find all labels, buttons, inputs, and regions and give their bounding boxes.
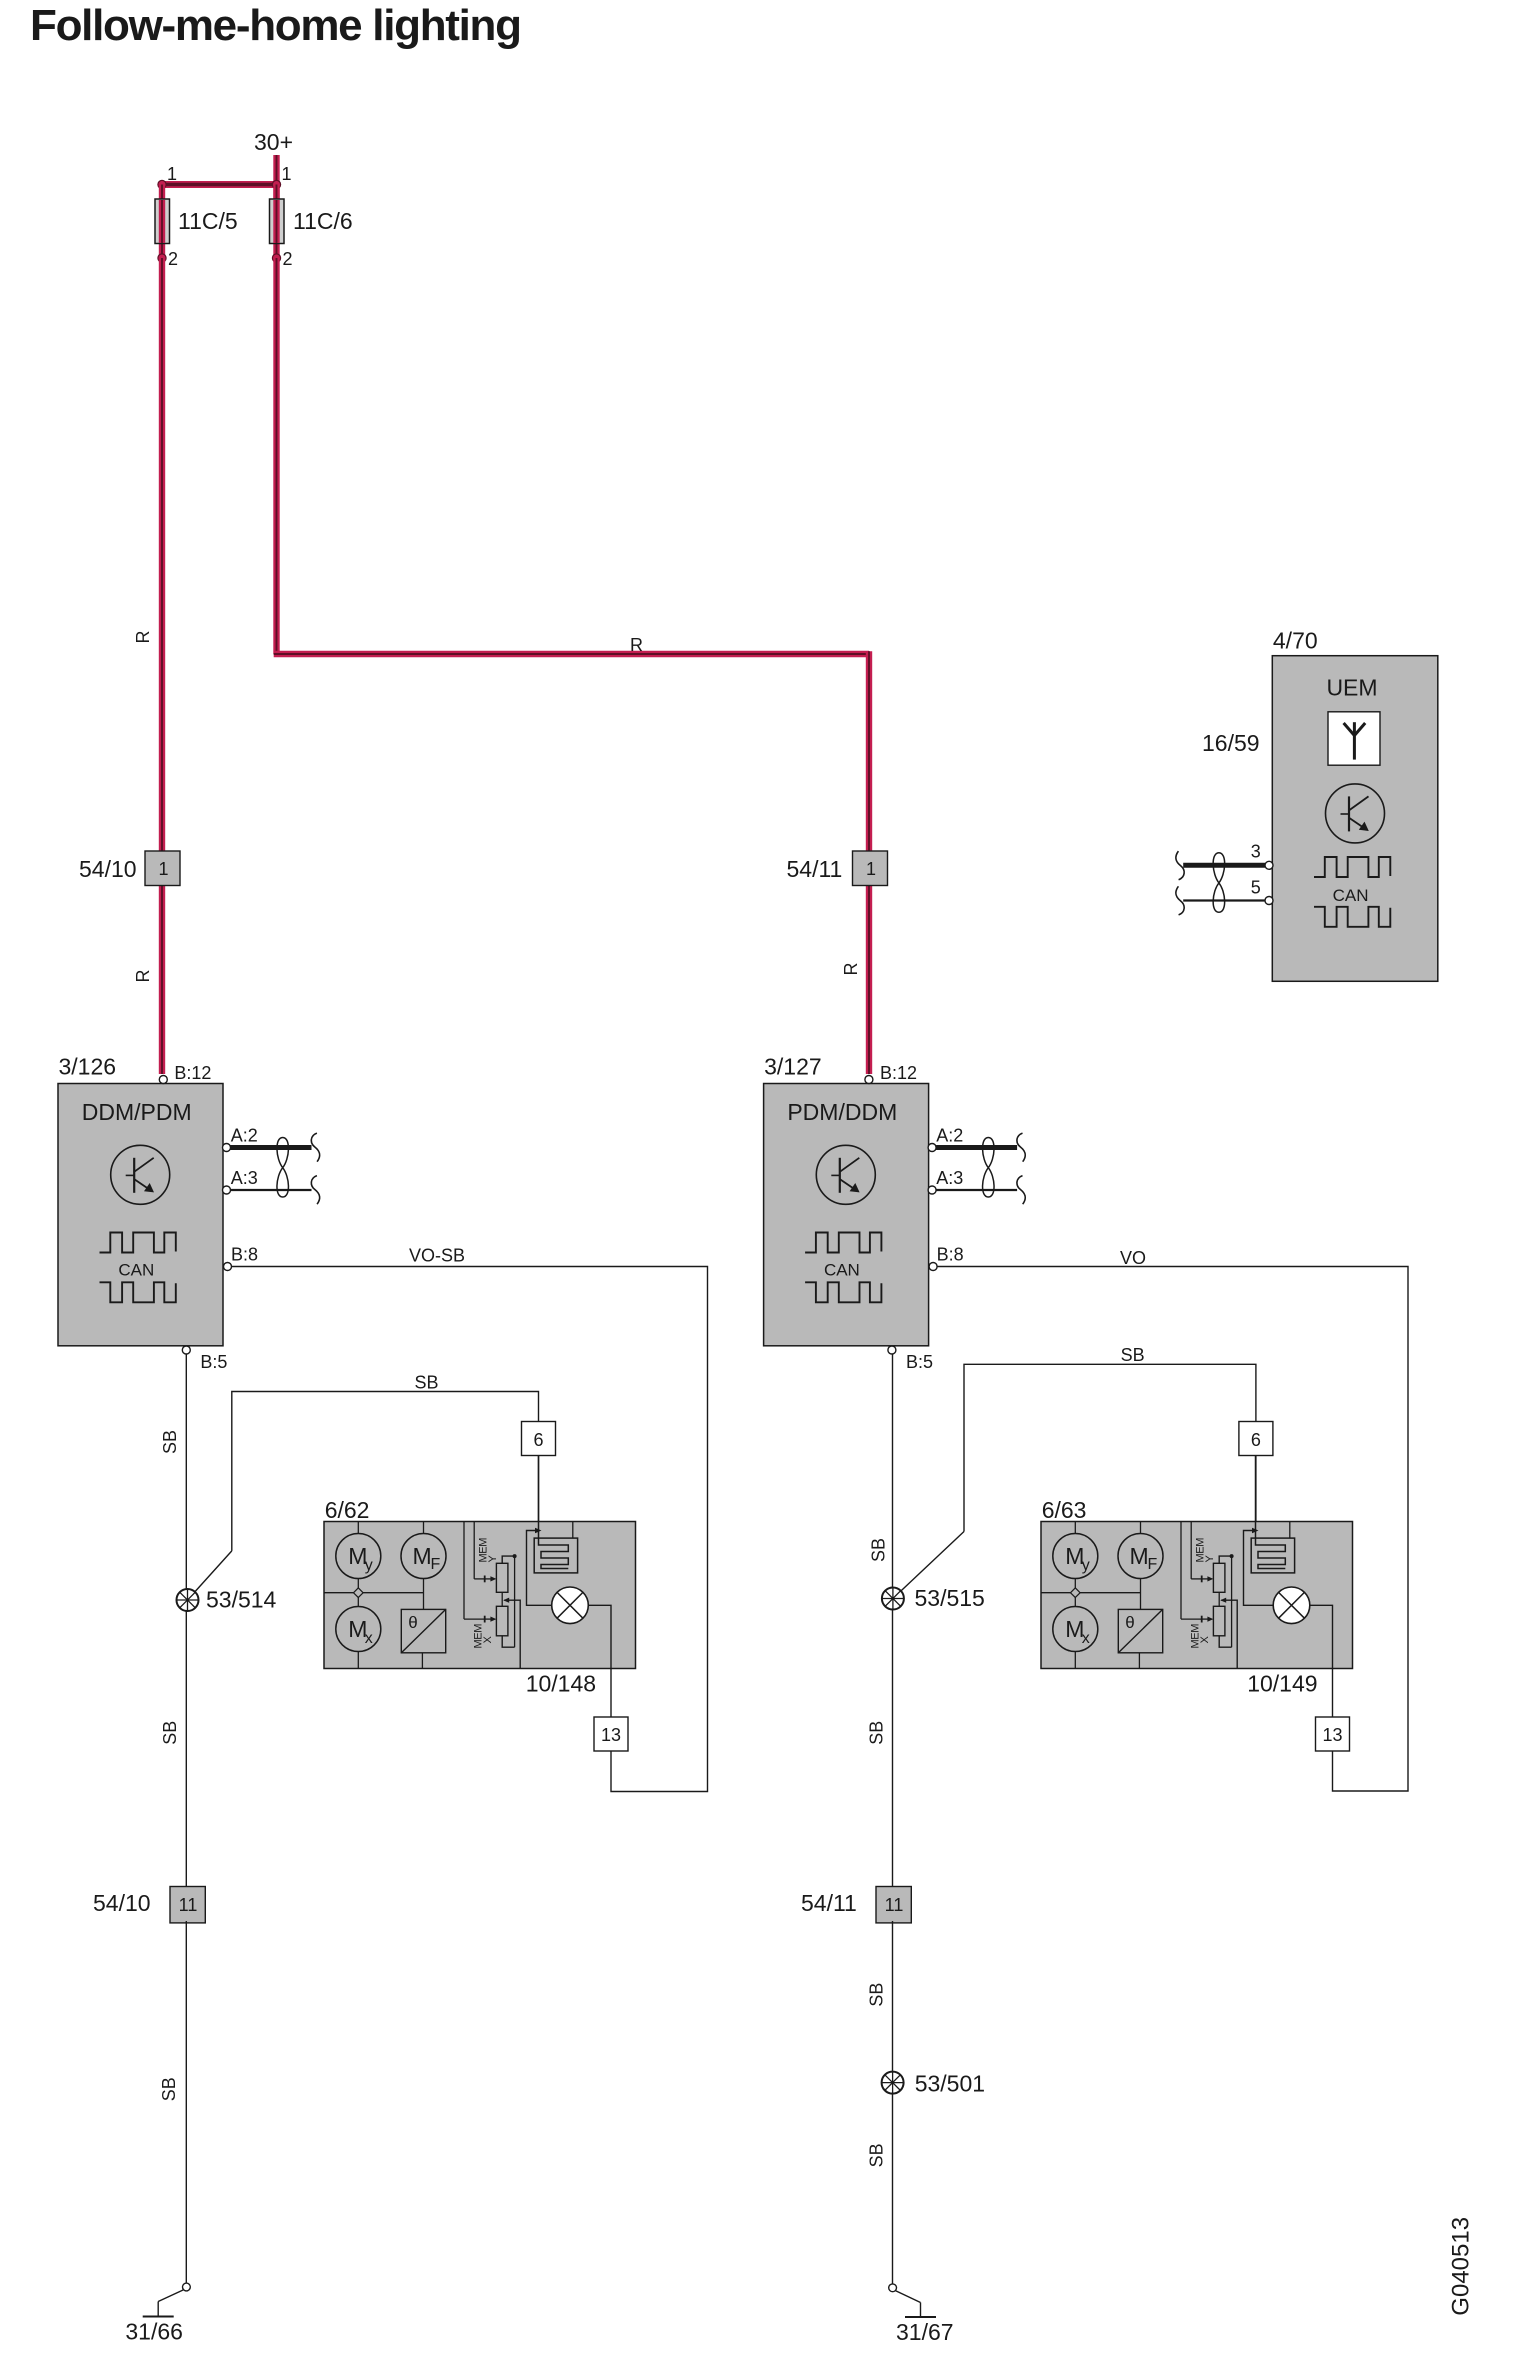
wire R through fuse 11C/6 xyxy=(273,185,279,259)
svg-text:A:3: A:3 xyxy=(231,1168,258,1188)
terminal A:2 of 3/127 with CAN-H line xyxy=(936,1145,1017,1150)
wire SB rail to mirror connector 6 xyxy=(232,1392,539,1551)
svg-text:30+: 30+ xyxy=(254,129,293,155)
connector 6 of 10/148 xyxy=(522,1422,556,1456)
motor My in 6/62 xyxy=(357,1522,359,1534)
motor My in 6/63 xyxy=(1074,1522,1076,1534)
svg-text:F: F xyxy=(431,1556,441,1573)
svg-text:11: 11 xyxy=(885,1895,904,1915)
courtesy lamp in 6/63 xyxy=(1273,1587,1310,1624)
svg-text:10/148: 10/148 xyxy=(526,1671,596,1697)
svg-text:A:2: A:2 xyxy=(936,1125,963,1145)
wire SB from 54/11 pin 11 to lamp 53/501 xyxy=(892,1921,894,2072)
temperature sensor (theta) box in 6/63 xyxy=(1118,1609,1162,1652)
wire R bus between fuse tops xyxy=(162,181,277,188)
svg-text:M: M xyxy=(1130,1543,1149,1569)
svg-text:F: F xyxy=(1148,1556,1158,1573)
module 4/70 (UEM) box xyxy=(1272,656,1438,982)
terminal 3 of UEM with CAN-H line xyxy=(1183,863,1265,868)
svg-text:6: 6 xyxy=(1251,1430,1261,1450)
connector 54/10 pin 1 xyxy=(145,851,180,886)
svg-text:54/11: 54/11 xyxy=(801,1890,857,1916)
svg-text:3: 3 xyxy=(1251,842,1261,862)
svg-text:X: X xyxy=(482,1636,494,1644)
svg-text:CAN: CAN xyxy=(1333,886,1369,905)
svg-text:6/63: 6/63 xyxy=(1042,1497,1087,1523)
svg-text:1: 1 xyxy=(167,164,177,184)
junction dot fuse 11C/6 pin 1 xyxy=(272,180,280,188)
svg-text:SB: SB xyxy=(414,1373,438,1393)
lamp 53/514 xyxy=(177,1589,199,1611)
wire R through fuse 11C/5 xyxy=(159,185,165,259)
twisted-pair symbol on 3/127 CAN lines xyxy=(983,1138,994,1198)
terminal A:3 of 3/127 with CAN-L line xyxy=(936,1189,1017,1191)
svg-text:SB: SB xyxy=(1121,1345,1145,1365)
internal wiring and junction in 6/63 xyxy=(1074,1579,1076,1589)
wire SB from lamp 53/515 down to connector 54/11 pin 11 xyxy=(892,1610,894,1887)
wire R supply drop from 30+ xyxy=(273,155,279,200)
temperature sensor (theta) box in 6/62 xyxy=(401,1609,445,1652)
svg-text:VO-SB: VO-SB xyxy=(409,1246,465,1266)
CAN waveform symbol inside 3/127 xyxy=(805,1233,881,1303)
motor Mx in 6/62 xyxy=(336,1607,381,1652)
svg-text:13: 13 xyxy=(601,1725,621,1745)
svg-text:B:5: B:5 xyxy=(200,1352,227,1372)
svg-text:X: X xyxy=(1199,1636,1211,1644)
svg-text:Follow-me-home lighting: Follow-me-home lighting xyxy=(30,1,521,50)
CAN waveform symbol in UEM xyxy=(1314,857,1390,927)
svg-text:2: 2 xyxy=(168,249,178,269)
mirror unit 6/63 box xyxy=(1041,1522,1353,1669)
motor Mx in 6/63 xyxy=(1053,1607,1098,1652)
svg-text:R: R xyxy=(133,631,153,644)
svg-text:3/126: 3/126 xyxy=(59,1054,117,1080)
cable break symbol (pin 3 line) xyxy=(1176,851,1184,880)
svg-text:2: 2 xyxy=(283,249,293,269)
wire VO-SB from 3/126 B:8 to connector 13 of 10/148 xyxy=(232,1267,708,1792)
svg-text:54/11: 54/11 xyxy=(787,856,843,882)
svg-text:SB: SB xyxy=(866,1721,886,1745)
svg-text:54/10: 54/10 xyxy=(93,1890,151,1916)
svg-text:VO: VO xyxy=(1120,1248,1146,1268)
feed branch to courtesy lamp in 6/63 xyxy=(1252,1528,1259,1534)
ground symbol 31/66 xyxy=(158,2290,183,2302)
svg-text:SB: SB xyxy=(866,1983,886,2007)
mirror heater element in 6/62 xyxy=(534,1538,577,1573)
svg-text:SB: SB xyxy=(868,1538,888,1562)
connector 13 of 10/149 xyxy=(1316,1717,1350,1751)
terminal B:5 of 3/127 xyxy=(888,1346,896,1354)
ground terminal circle 31/66 xyxy=(183,2283,191,2291)
connector 13 of 10/148 xyxy=(594,1717,628,1751)
wire SB from 3/127 B:5 down to lamp 53/515 xyxy=(892,1354,894,1588)
svg-text:CAN: CAN xyxy=(118,1261,154,1280)
svg-text:y: y xyxy=(1082,1557,1090,1574)
fuse 11C/5 xyxy=(155,199,170,244)
wire SB from 3/126 B:5 down to lamp 53/514 xyxy=(185,1354,187,1589)
svg-text:SB: SB xyxy=(160,1430,180,1454)
feed branch to courtesy lamp in 6/62 xyxy=(535,1528,542,1534)
module 3/127 box xyxy=(764,1084,929,1346)
motor MF in 6/62 xyxy=(423,1522,425,1534)
svg-text:11C/6: 11C/6 xyxy=(293,208,353,234)
cable break symbol (A:2 line) xyxy=(311,1133,319,1162)
svg-text:54/10: 54/10 xyxy=(79,856,137,882)
svg-text:R: R xyxy=(841,963,861,976)
twisted-pair symbol on UEM CAN lines xyxy=(1213,853,1224,913)
svg-text:DDM/PDM: DDM/PDM xyxy=(82,1099,192,1125)
svg-text:53/514: 53/514 xyxy=(206,1587,277,1613)
terminal B:12 of 3/126 xyxy=(159,1076,167,1084)
svg-text:R: R xyxy=(133,970,153,983)
svg-text:R: R xyxy=(630,635,643,655)
MEM X potentiometer in 6/63 xyxy=(1180,1522,1182,1620)
cable break symbol (A:3 line) xyxy=(311,1176,319,1205)
svg-text:UEM: UEM xyxy=(1326,675,1377,701)
svg-text:4/70: 4/70 xyxy=(1273,628,1318,654)
svg-text:Y: Y xyxy=(1204,1555,1216,1563)
MEM wiring in 6/62 xyxy=(501,1592,503,1606)
svg-text:53/501: 53/501 xyxy=(915,2071,985,2097)
ground symbol 31/67 xyxy=(895,2291,920,2303)
svg-text:16/59: 16/59 xyxy=(1202,730,1260,756)
svg-text:11: 11 xyxy=(179,1895,198,1915)
connector 54/11 pin 11 xyxy=(876,1887,911,1923)
svg-text:B:8: B:8 xyxy=(231,1244,258,1264)
svg-text:1: 1 xyxy=(158,859,168,879)
lamp 53/501 xyxy=(882,2072,904,2094)
svg-text:1: 1 xyxy=(866,859,876,879)
svg-text:10/149: 10/149 xyxy=(1247,1671,1317,1697)
wire SB from lamp 53/501 to ground xyxy=(892,2093,894,2284)
svg-text:CAN: CAN xyxy=(824,1261,860,1280)
terminal 5 of UEM with CAN-L line xyxy=(1183,899,1265,901)
ground terminal circle 31/67 xyxy=(889,2284,897,2292)
courtesy lamp in 6/62 xyxy=(552,1587,589,1624)
lamp output wire to connector 13 in 6/62 xyxy=(588,1605,611,1717)
svg-text:6/62: 6/62 xyxy=(325,1497,370,1523)
cable break symbol (pin 5 line) xyxy=(1176,886,1184,915)
motor MF in 6/63 xyxy=(1140,1522,1142,1534)
cable break symbol (A:3 line) xyxy=(1017,1176,1025,1205)
svg-text:M: M xyxy=(413,1543,432,1569)
internal wiring and junction in 6/62 xyxy=(357,1579,359,1589)
svg-text:θ: θ xyxy=(408,1613,417,1632)
module 3/126 box xyxy=(58,1084,223,1346)
CAN waveform symbol inside 3/126 xyxy=(100,1233,176,1303)
mirror unit 6/62 box xyxy=(324,1522,636,1669)
terminal A:3 of 3/126 with CAN-L line xyxy=(231,1189,312,1191)
transistor symbol inside 3/126 xyxy=(111,1145,170,1204)
svg-text:31/67: 31/67 xyxy=(896,2319,954,2345)
svg-text:SB: SB xyxy=(160,1721,180,1745)
svg-text:B:12: B:12 xyxy=(880,1063,917,1083)
wire SB from lamp 53/514 down to connector 54/10 pin 11 xyxy=(185,1611,187,1888)
MEM X potentiometer in 6/62 xyxy=(463,1522,465,1620)
terminal B:5 of 3/126 xyxy=(182,1346,190,1354)
connector 54/10 pin 11 xyxy=(170,1887,205,1923)
mirror heater element in 6/63 xyxy=(1251,1538,1294,1573)
MEM wiring in 6/63 xyxy=(1218,1592,1220,1606)
wire from connector 6 into mirror unit xyxy=(538,1456,540,1547)
svg-text:B:8: B:8 xyxy=(937,1244,964,1264)
lamp 53/515 xyxy=(882,1588,904,1610)
wire R from fuse 11C/6: down, across, down to 3/127 B:12 xyxy=(273,258,279,654)
svg-text:SB: SB xyxy=(159,2077,179,2101)
svg-text:PDM/DDM: PDM/DDM xyxy=(787,1099,897,1125)
MEM Y potentiometer in 6/62 xyxy=(473,1522,475,1579)
terminal B:8 of 3/126 xyxy=(224,1263,232,1271)
terminal B:12 of 3/127 xyxy=(865,1076,873,1084)
lamp output wire to connector 13 in 6/63 xyxy=(1310,1605,1333,1717)
junction dot fuse 11C/6 pin 2 xyxy=(272,254,280,262)
svg-text:A:2: A:2 xyxy=(231,1125,258,1145)
svg-text:B:12: B:12 xyxy=(174,1063,211,1083)
wire SB rail to mirror connector 6 (right) xyxy=(964,1364,1256,1531)
svg-text:1: 1 xyxy=(282,164,292,184)
MEM Y potentiometer in 6/63 xyxy=(1190,1522,1192,1579)
svg-text:6: 6 xyxy=(533,1430,543,1450)
junction dot fuse 11C/5 pin 2 xyxy=(158,254,166,262)
wire SB diagonal branch into lamp 53/514 xyxy=(188,1551,232,1600)
svg-text:5: 5 xyxy=(1251,877,1261,897)
wire SB from 54/10 pin 11 to ground xyxy=(185,1921,187,2283)
transistor symbol in UEM xyxy=(1326,784,1385,843)
terminal B:8 of 3/127 xyxy=(929,1263,937,1271)
svg-text:3/127: 3/127 xyxy=(764,1054,822,1080)
cable break symbol (A:2 line) xyxy=(1017,1133,1025,1162)
fuse 11C/6 xyxy=(270,199,285,244)
wire R from fuse 11C/5 down to 3/126 B:12 xyxy=(159,258,165,1074)
wire SB diagonal branch into lamp 53/515 xyxy=(893,1532,964,1599)
svg-text:11C/5: 11C/5 xyxy=(178,208,238,234)
svg-text:SB: SB xyxy=(866,2143,886,2167)
connector 54/11 pin 1 xyxy=(853,851,888,886)
connector 6 of 10/149 xyxy=(1239,1422,1273,1456)
svg-text:B:5: B:5 xyxy=(906,1352,933,1372)
svg-text:G040513: G040513 xyxy=(1448,2217,1475,2316)
svg-text:MEM: MEM xyxy=(1190,1624,1202,1649)
svg-text:13: 13 xyxy=(1322,1725,1342,1745)
svg-text:31/66: 31/66 xyxy=(125,2319,183,2345)
svg-text:x: x xyxy=(365,1630,373,1647)
svg-text:Y: Y xyxy=(487,1555,499,1563)
svg-text:A:3: A:3 xyxy=(936,1168,963,1188)
junction dot fuse 11C/5 pin 1 xyxy=(158,180,166,188)
svg-text:MEM: MEM xyxy=(473,1624,485,1649)
svg-text:y: y xyxy=(365,1557,373,1574)
twisted-pair symbol on 3/126 CAN lines xyxy=(277,1138,288,1198)
antenna symbol in UEM xyxy=(1328,712,1380,765)
svg-text:x: x xyxy=(1082,1630,1090,1647)
svg-text:53/515: 53/515 xyxy=(915,1585,985,1611)
wire from connector 6 into mirror unit (right) xyxy=(1255,1456,1257,1547)
svg-text:θ: θ xyxy=(1125,1613,1134,1632)
wire VO from 3/127 B:8 to connector 13 of 10/149 xyxy=(937,1267,1408,1792)
transistor symbol inside 3/127 xyxy=(816,1145,875,1204)
terminal A:2 of 3/126 with CAN-H line xyxy=(231,1145,312,1150)
